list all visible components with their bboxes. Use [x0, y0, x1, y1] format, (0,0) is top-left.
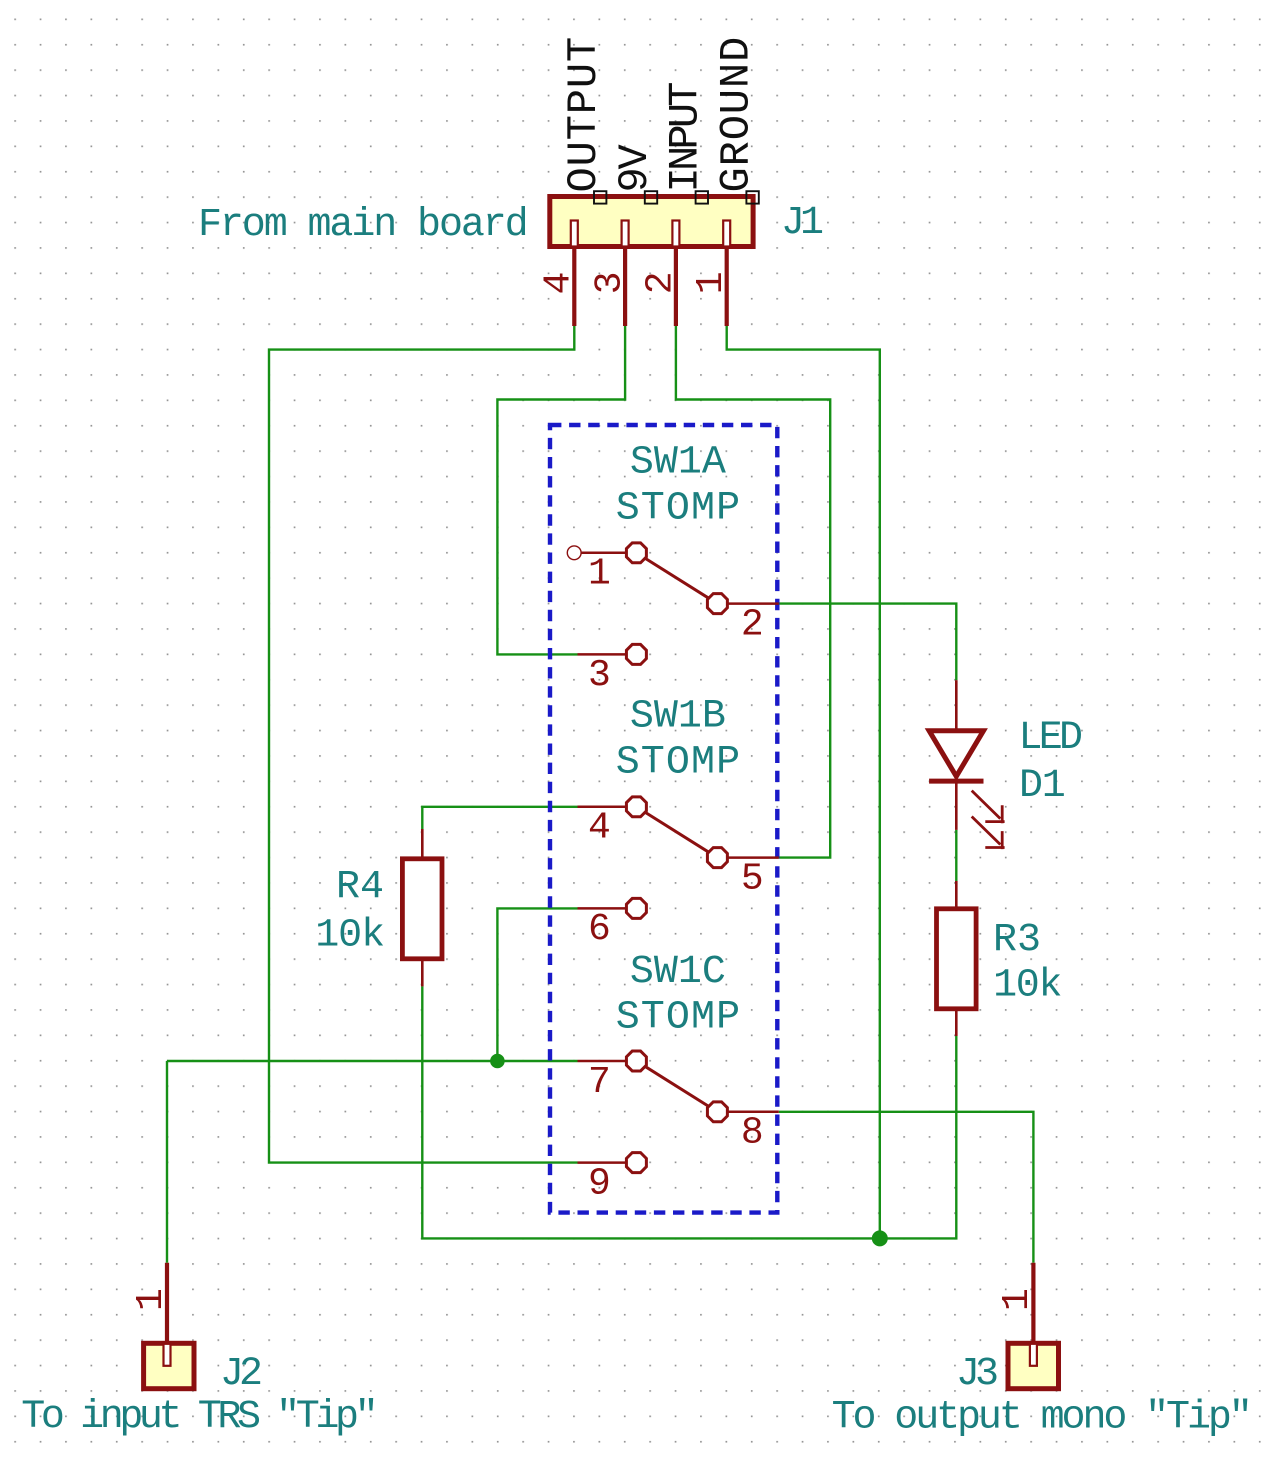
svg-text:SW1B: SW1B	[630, 695, 726, 740]
svg-text:SW1A: SW1A	[630, 441, 726, 486]
svg-text:To input TRS "Tip": To input TRS "Tip"	[21, 1395, 374, 1440]
svg-text:3: 3	[589, 271, 632, 294]
svg-text:J1: J1	[781, 201, 823, 246]
svg-text:STOMP: STOMP	[616, 740, 742, 785]
svg-text:8: 8	[741, 1112, 764, 1155]
svg-text:9: 9	[588, 1162, 611, 1205]
svg-text:4: 4	[588, 807, 611, 850]
svg-text:2: 2	[741, 603, 764, 646]
svg-text:D1: D1	[1019, 764, 1065, 809]
svg-text:1: 1	[996, 1288, 1039, 1311]
svg-text:STOMP: STOMP	[616, 486, 742, 531]
svg-text:STOMP: STOMP	[616, 996, 742, 1041]
svg-text:To output mono "Tip": To output mono "Tip"	[832, 1396, 1250, 1441]
svg-text:1: 1	[130, 1288, 173, 1311]
svg-text:R3: R3	[993, 918, 1041, 963]
svg-text:10k: 10k	[993, 963, 1061, 1008]
svg-text:1: 1	[690, 271, 733, 294]
svg-text:From main board: From main board	[198, 203, 527, 248]
svg-text:4: 4	[538, 271, 581, 294]
svg-text:SW1C: SW1C	[630, 950, 726, 995]
svg-text:7: 7	[588, 1061, 611, 1104]
svg-text:3: 3	[588, 654, 611, 697]
svg-text:5: 5	[741, 857, 764, 900]
svg-text:J3: J3	[956, 1352, 997, 1397]
svg-text:10k: 10k	[315, 914, 384, 959]
svg-text:R4: R4	[336, 865, 384, 910]
svg-text:2: 2	[639, 271, 682, 294]
svg-text:INPUT: INPUT	[662, 83, 710, 193]
svg-text:J2: J2	[220, 1352, 261, 1397]
svg-text:GROUND: GROUND	[712, 36, 760, 193]
svg-text:1: 1	[588, 553, 611, 596]
svg-text:LED: LED	[1019, 716, 1082, 761]
svg-text:9V: 9V	[611, 144, 659, 192]
svg-text:OUTPUT: OUTPUT	[560, 36, 608, 193]
svg-text:6: 6	[588, 908, 611, 951]
